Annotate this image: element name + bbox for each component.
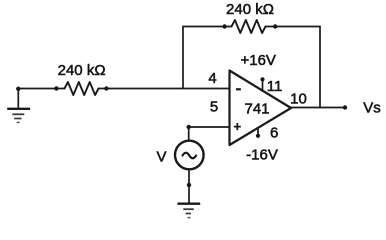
svg-text:Vs: Vs <box>363 100 381 117</box>
svg-text:741: 741 <box>244 100 269 117</box>
svg-text:V: V <box>156 148 166 165</box>
node: R1 right terminal <box>104 86 108 90</box>
svg-text:+16V: +16V <box>240 52 275 69</box>
node: pin 11 terminal dot <box>260 77 264 81</box>
wire: left ground stem <box>17 89 19 108</box>
node: R2 right terminal <box>273 24 277 28</box>
svg-text:240 kΩ: 240 kΩ <box>226 1 274 18</box>
node: R1 left terminal <box>54 86 58 90</box>
svg-text:4: 4 <box>208 70 216 87</box>
ground GND1 (left) <box>7 109 30 123</box>
svg-text:6: 6 <box>270 124 278 141</box>
node: source V plus terminal <box>187 125 191 129</box>
svg-text:5: 5 <box>210 99 218 116</box>
op-amp U1 741 triangle <box>230 71 292 146</box>
node: output Vs terminal <box>343 105 347 109</box>
wire: feedback right vertical down to output <box>319 27 321 108</box>
wire: source V top to op-amp non-inverting input <box>189 126 230 128</box>
ground GND2 (bottom, under source V) <box>177 204 200 218</box>
op-amp plus input marker <box>234 123 241 130</box>
wire: feedback left vertical <box>182 27 184 89</box>
op-amp pin 11 stub (V+ supply) <box>262 81 264 92</box>
wire: top feedback to resistor R2 left terminal <box>183 26 232 28</box>
op-amp pin 6 stub (V- supply) <box>257 128 259 135</box>
node: R2 left terminal <box>222 24 226 28</box>
svg-text:-16V: -16V <box>246 147 278 164</box>
wire: source V top stem <box>188 127 190 140</box>
source V sine symbol <box>183 153 197 159</box>
resistor R1 240k zigzag <box>65 82 99 95</box>
wire: input node to resistor R1 left terminal <box>18 88 64 90</box>
node: pin 6 terminal dot <box>256 134 260 138</box>
source V circle <box>175 141 204 170</box>
wire: op-amp output to Vs node <box>291 107 345 109</box>
node: input ground junction <box>16 87 20 91</box>
svg-text:11: 11 <box>267 78 283 95</box>
svg-text:10: 10 <box>290 91 307 108</box>
svg-text:240 kΩ: 240 kΩ <box>58 62 106 79</box>
node: source V minus terminal <box>187 183 191 187</box>
wire: source V bottom stem to ground <box>188 170 190 203</box>
resistor R2 240k zigzag (feedback) <box>232 20 266 33</box>
op-amp minus input marker <box>236 88 241 90</box>
wire: resistor R1 right terminal to op-amp inverting input <box>99 88 230 90</box>
wire: resistor R2 right terminal to top-right corner <box>266 26 321 28</box>
